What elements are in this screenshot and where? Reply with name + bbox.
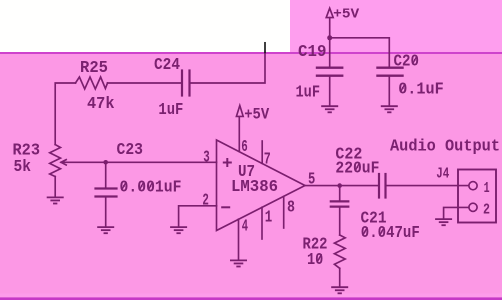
svg-text:R25: R25 <box>80 58 108 77</box>
svg-text:1: 1 <box>265 207 273 226</box>
svg-text:LM386: LM386 <box>231 177 278 196</box>
svg-text:+5V: +5V <box>333 7 360 23</box>
svg-text:+5V: +5V <box>244 105 269 123</box>
svg-text:5: 5 <box>308 169 315 188</box>
svg-text:5k: 5k <box>14 157 32 176</box>
svg-text:47k: 47k <box>87 94 115 113</box>
svg-text:0.047uF: 0.047uF <box>361 223 420 242</box>
svg-text:C19: C19 <box>298 42 327 61</box>
svg-text:C24: C24 <box>154 55 180 74</box>
svg-text:0.1uF: 0.1uF <box>398 79 444 98</box>
svg-text:7: 7 <box>264 150 271 169</box>
svg-text:1uF: 1uF <box>158 100 183 119</box>
svg-text:J4: J4 <box>436 166 449 182</box>
svg-text:Audio Output: Audio Output <box>390 137 500 156</box>
svg-text:8: 8 <box>287 198 295 217</box>
svg-text:3: 3 <box>203 147 210 166</box>
svg-text:1uF: 1uF <box>296 83 321 102</box>
svg-text:4: 4 <box>242 217 248 236</box>
svg-text:C20: C20 <box>394 52 420 71</box>
svg-text:1: 1 <box>484 181 490 197</box>
svg-text:6: 6 <box>241 137 248 156</box>
svg-text:2: 2 <box>202 190 209 209</box>
svg-text:2: 2 <box>483 202 490 218</box>
svg-text:10: 10 <box>307 250 323 269</box>
svg-text:C23: C23 <box>117 140 144 159</box>
